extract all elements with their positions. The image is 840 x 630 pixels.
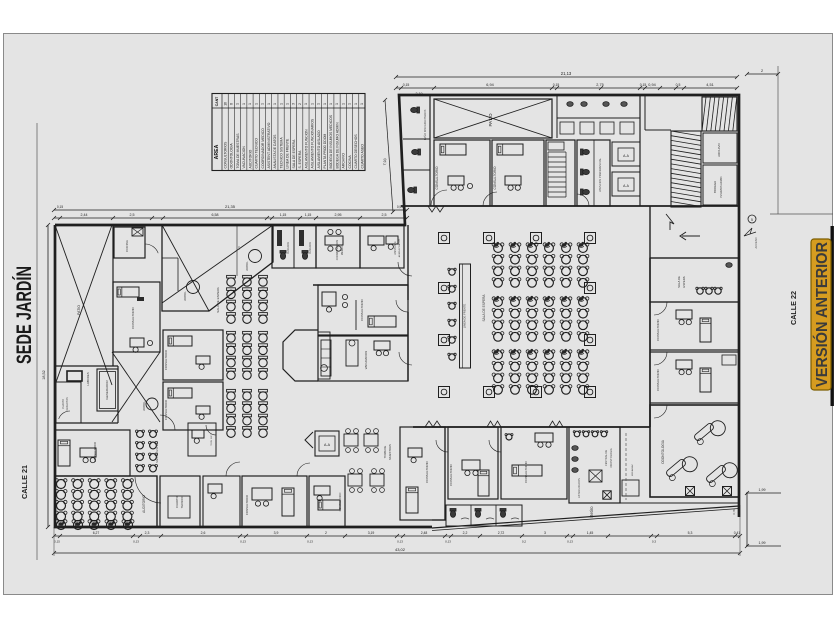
svg-text:CONSULTORIO: CONSULTORIO bbox=[656, 368, 660, 390]
svg-text:0,13: 0,13 bbox=[307, 540, 313, 544]
svg-text:AISLAMIENTO FUNCION: AISLAMIENTO FUNCION bbox=[304, 129, 308, 169]
svg-text:TECNICO SISTEMA: TECNICO SISTEMA bbox=[279, 137, 283, 169]
svg-text:TECN SIST: TECN SIST bbox=[211, 434, 213, 446]
svg-text:ESPERA: ESPERA bbox=[682, 276, 686, 287]
svg-text:SALA DE: SALA DE bbox=[677, 276, 681, 288]
hall chair group 2 bbox=[492, 296, 589, 342]
version anterior banner bbox=[811, 239, 831, 390]
svg-text:PATIO: PATIO bbox=[77, 305, 81, 315]
svg-text:ARBOL: ARBOL bbox=[245, 261, 249, 271]
svg-text:VERSIÓN ANTERIOR: VERSIÓN ANTERIOR bbox=[813, 242, 831, 387]
wing archivo room bbox=[703, 133, 737, 163]
bottom band consultorio C / central esterilizacion bbox=[501, 427, 567, 499]
svg-text:1: 1 bbox=[304, 103, 308, 105]
svg-text:CONSULTORIO: CONSULTORIO bbox=[93, 441, 97, 462]
svg-text:8: 8 bbox=[230, 103, 234, 105]
svg-text:0,13: 0,13 bbox=[397, 540, 403, 544]
esterilizacion sub room bbox=[569, 427, 639, 503]
svg-text:CUARTO TECNICO: CUARTO TECNICO bbox=[255, 138, 259, 169]
svg-text:CUARTO DESECHOS: CUARTO DESECHOS bbox=[354, 134, 358, 169]
svg-text:0,3: 0,3 bbox=[652, 540, 657, 544]
svg-text:ATENCION PREFERENCIAL: ATENCION PREFERENCIAL bbox=[598, 158, 602, 192]
svg-text:A-A: A-A bbox=[623, 154, 629, 158]
cuarto tecnico room bbox=[160, 476, 200, 527]
svg-text:TECNICO: TECNICO bbox=[180, 495, 184, 508]
svg-text:1: 1 bbox=[248, 103, 252, 105]
svg-text:0,94: 0,94 bbox=[648, 83, 655, 87]
left patio with cross bbox=[55, 225, 160, 422]
wing consultorio 2 bbox=[492, 140, 544, 206]
svg-text:LINEA DE FRENTE: LINEA DE FRENTE bbox=[286, 138, 290, 169]
bay window bbox=[283, 330, 330, 381]
svg-text:0,2: 0,2 bbox=[522, 540, 527, 544]
sala espera small chairs above auditorio bbox=[136, 430, 160, 472]
svg-text:1: 1 bbox=[360, 103, 364, 105]
svg-text:CANT: CANT bbox=[215, 96, 219, 106]
A-A section marker box bbox=[305, 431, 339, 456]
right consultorio 2 bbox=[650, 352, 739, 403]
svg-text:5: 5 bbox=[751, 218, 753, 222]
svg-text:SALA DE ESPERA: SALA DE ESPERA bbox=[482, 294, 486, 322]
svg-text:CENTRAL DE: CENTRAL DE bbox=[604, 450, 608, 467]
svg-text:3: 3 bbox=[292, 103, 296, 105]
svg-text:18: 18 bbox=[223, 102, 227, 106]
svg-text:0,13: 0,13 bbox=[133, 540, 139, 544]
svg-text:Retiro: Retiro bbox=[589, 506, 594, 518]
svg-text:2,2: 2,2 bbox=[463, 531, 468, 535]
vacunacion room bbox=[318, 336, 408, 381]
svg-text:0,15: 0,15 bbox=[403, 83, 410, 87]
black bar behind banner bbox=[831, 226, 834, 406]
svg-text:TOMA DE MUESTRAS: TOMA DE MUESTRAS bbox=[236, 133, 240, 169]
dimension lines bottom bbox=[52, 505, 742, 556]
svg-text:AISLAMIENTO FUNCIONARIOS: AISLAMIENTO FUNCIONARIOS bbox=[311, 118, 315, 168]
patio of wing with cross bbox=[434, 99, 552, 138]
svg-text:ADMINISTRATIVO: ADMINISTRATIVO bbox=[398, 238, 401, 257]
svg-text:2,3: 2,3 bbox=[145, 531, 150, 535]
slant dimension 7,93 bbox=[385, 100, 393, 212]
svg-text:AUDITORIO: AUDITORIO bbox=[248, 149, 252, 168]
svg-text:CUARTO: CUARTO bbox=[175, 495, 179, 508]
svg-text:CONSULTORIO: CONSULTORIO bbox=[164, 349, 168, 370]
svg-text:PLANTA PROD DDOM: PLANTA PROD DDOM bbox=[323, 134, 327, 169]
svg-text:1: 1 bbox=[254, 103, 258, 105]
svg-text:CUARTO ASEO: CUARTO ASEO bbox=[360, 144, 364, 169]
svg-text:1: 1 bbox=[341, 103, 345, 105]
svg-text:3,5: 3,5 bbox=[237, 246, 241, 250]
svg-text:BODEGA DE INSUMOS MEDICOS: BODEGA DE INSUMOS MEDICOS bbox=[329, 114, 333, 168]
svg-text:ARCHIVO: ARCHIVO bbox=[717, 143, 721, 157]
svg-text:CUARTO: CUARTO bbox=[62, 399, 65, 409]
svg-text:SALA DE ESPERA: SALA DE ESPERA bbox=[292, 139, 296, 169]
right sala de espera room bbox=[650, 258, 739, 302]
linea de frente counter bbox=[448, 264, 471, 368]
wing toilets top band bbox=[557, 95, 640, 206]
svg-text:1: 1 bbox=[310, 103, 314, 105]
svg-text:ANALISTA DE DATOS: ANALISTA DE DATOS bbox=[273, 134, 277, 169]
svg-text:1,99: 1,99 bbox=[759, 541, 766, 545]
svg-text:4,51: 4,51 bbox=[706, 83, 713, 87]
svg-text:1: 1 bbox=[335, 103, 339, 105]
auditorio chairs bbox=[55, 476, 161, 530]
toma de muestras tables bbox=[344, 429, 392, 493]
svg-text:1: 1 bbox=[242, 103, 246, 105]
hall chair group 3 bbox=[492, 349, 589, 395]
svg-text:FUMADOR: FUMADOR bbox=[309, 242, 312, 254]
svg-text:ACCESO: ACCESO bbox=[754, 238, 758, 249]
svg-text:1: 1 bbox=[267, 103, 271, 105]
svg-text:INSUMOS ADMIN: INSUMOS ADMIN bbox=[719, 176, 723, 197]
svg-text:COCINA: COCINA bbox=[348, 155, 352, 169]
svg-text:2,48: 2,48 bbox=[421, 531, 428, 535]
coordinacion medico room bbox=[316, 225, 360, 268]
consultorio left bottom row1 bbox=[55, 430, 130, 476]
svg-text:1: 1 bbox=[273, 103, 277, 105]
sala de espera chairs left bbox=[216, 275, 267, 437]
svg-text:2: 2 bbox=[325, 531, 327, 535]
bottom band consultorio A bbox=[400, 427, 445, 520]
svg-text:CONSULTORIO: CONSULTORIO bbox=[425, 460, 429, 482]
hall chair group 1 bbox=[492, 242, 589, 288]
building outer walls bbox=[55, 95, 739, 531]
consultorio center-right bbox=[313, 285, 408, 335]
wing vertical ramp hatch bbox=[671, 131, 701, 207]
consultorio rooms center-left column bbox=[163, 330, 223, 430]
svg-text:MEDICO: MEDICO bbox=[340, 245, 344, 255]
svg-text:0,13: 0,13 bbox=[567, 540, 573, 544]
svg-text:1,15: 1,15 bbox=[305, 213, 312, 217]
svg-text:6,94: 6,94 bbox=[486, 83, 493, 87]
svg-text:1: 1 bbox=[279, 103, 283, 105]
svg-text:43,02: 43,02 bbox=[395, 547, 406, 552]
svg-text:CALLE 22: CALLE 22 bbox=[789, 291, 798, 325]
svg-text:LINEA DE FRENTE: LINEA DE FRENTE bbox=[463, 304, 467, 329]
dimension lines right side 1,99 bbox=[745, 66, 833, 548]
consultorio left mid bbox=[113, 282, 160, 352]
svg-text:COORDINADOR MEDICO: COORDINADOR MEDICO bbox=[261, 128, 265, 169]
svg-text:21,35: 21,35 bbox=[225, 204, 236, 209]
dimension lines top wing bbox=[383, 71, 739, 214]
svg-text:ODONTOLOGIA: ODONTOLOGIA bbox=[661, 439, 665, 464]
svg-text:5,3: 5,3 bbox=[688, 531, 693, 535]
svg-text:ODONTOLOGIA: ODONTOLOGIA bbox=[230, 143, 234, 169]
retiro strip top line bbox=[569, 502, 739, 504]
svg-text:AISLAMIENTO AISLADO: AISLAMIENTO AISLADO bbox=[317, 130, 321, 169]
svg-text:A-A: A-A bbox=[324, 443, 331, 447]
svg-text:ARBOL: ARBOL bbox=[142, 401, 146, 411]
svg-text:CONSULTORIO: CONSULTORIO bbox=[524, 460, 528, 482]
svg-text:6,58: 6,58 bbox=[212, 213, 219, 217]
svg-text:0,5: 0,5 bbox=[676, 83, 681, 87]
hall walls bbox=[413, 206, 650, 427]
svg-text:2,5: 2,5 bbox=[130, 213, 135, 217]
svg-text:TOMA DE: TOMA DE bbox=[383, 446, 387, 459]
wing consultorio 1 bbox=[434, 140, 490, 206]
svg-text:CONSULTORIO: CONSULTORIO bbox=[449, 463, 453, 485]
dimension lines top of left block bbox=[52, 204, 409, 220]
svg-text:CONSULTORIO: CONSULTORIO bbox=[131, 306, 135, 328]
svg-text:ASISTENTE: ASISTENTE bbox=[394, 241, 397, 255]
svg-text:SALA DE ESPERA: SALA DE ESPERA bbox=[216, 287, 220, 313]
garden area with trees bbox=[162, 225, 273, 311]
wing A-A rooms bbox=[612, 142, 640, 196]
svg-text:1,15: 1,15 bbox=[280, 213, 287, 217]
svg-text:PATIO: PATIO bbox=[488, 113, 493, 127]
svg-text:1: 1 bbox=[317, 103, 321, 105]
svg-text:0,15: 0,15 bbox=[553, 83, 560, 87]
svg-text:0,15: 0,15 bbox=[640, 83, 647, 87]
svg-text:CONSULTORIO: CONSULTORIO bbox=[245, 494, 249, 515]
svg-text:CONSULTORIO: CONSULTORIO bbox=[360, 298, 364, 320]
svg-text:ASISTENT ADMINISTRATIVO: ASISTENT ADMINISTRATIVO bbox=[267, 122, 271, 168]
svg-text:21,13: 21,13 bbox=[561, 71, 572, 76]
svg-text:1: 1 bbox=[354, 103, 358, 105]
svg-text:ESTERILIZACION: ESTERILIZACION bbox=[578, 478, 581, 498]
bottom toilets row bbox=[446, 505, 522, 526]
fumador stalls bbox=[272, 225, 316, 268]
svg-text:BODEGA DE INSUMO ADMIN: BODEGA DE INSUMO ADMIN bbox=[335, 122, 339, 169]
consultorio mid-bottom rooms bbox=[242, 476, 345, 527]
wing stairs room bbox=[546, 140, 575, 206]
svg-text:1,99: 1,99 bbox=[759, 488, 766, 492]
svg-text:1: 1 bbox=[348, 103, 352, 105]
svg-text:GENERADOR: GENERADOR bbox=[105, 380, 109, 400]
svg-text:2,75: 2,75 bbox=[596, 83, 603, 87]
wing wc cluster bbox=[577, 140, 610, 206]
svg-text:S. ESPERA: S. ESPERA bbox=[298, 150, 302, 169]
asistente administrativo room bbox=[360, 225, 404, 268]
svg-text:SALA DE ESPERA: SALA DE ESPERA bbox=[155, 441, 159, 463]
tecnico sistemas small room bbox=[188, 423, 216, 456]
svg-text:ODONTOLOGIA: ODONTOLOGIA bbox=[609, 448, 613, 468]
svg-text:3,19: 3,19 bbox=[368, 531, 375, 535]
svg-text:DESECHOS: DESECHOS bbox=[66, 397, 69, 411]
svg-text:CONSULTORIO: CONSULTORIO bbox=[435, 166, 439, 190]
room next to cuarto tecnico bbox=[203, 476, 240, 527]
svg-text:2: 2 bbox=[761, 69, 763, 73]
svg-text:1: 1 bbox=[285, 103, 289, 105]
hall columns bbox=[439, 233, 596, 398]
legend table AREA/CANT bbox=[212, 94, 365, 171]
svg-text:AREA: AREA bbox=[214, 144, 220, 159]
svg-text:CALLE 21: CALLE 21 bbox=[20, 465, 29, 499]
svg-text:COORDINACION: COORDINACION bbox=[335, 240, 339, 261]
svg-text:VACUNACION: VACUNACION bbox=[364, 351, 368, 369]
svg-text:CONSULTORIOS: CONSULTORIOS bbox=[224, 141, 228, 169]
svg-text:0,15: 0,15 bbox=[57, 205, 63, 209]
svg-text:2: 2 bbox=[298, 103, 302, 105]
svg-text:3: 3 bbox=[544, 531, 546, 535]
retiro boundary diagonal bbox=[432, 506, 739, 528]
svg-text:LABORES: LABORES bbox=[86, 372, 90, 385]
svg-text:CONSULTORIO: CONSULTORIO bbox=[164, 399, 168, 420]
bottom band consultorio B bbox=[448, 427, 498, 499]
arbol tree bottom left patio bbox=[146, 398, 158, 410]
svg-text:0,76: 0,76 bbox=[732, 509, 736, 515]
svg-text:2,5: 2,5 bbox=[382, 213, 387, 217]
svg-text:CONSULTORIO: CONSULTORIO bbox=[493, 166, 497, 190]
cocina room bbox=[114, 227, 158, 258]
svg-text:CONSULTORIO: CONSULTORIO bbox=[656, 318, 660, 340]
svg-text:1: 1 bbox=[329, 103, 333, 105]
svg-text:0,15: 0,15 bbox=[54, 540, 60, 544]
dimension line left side 18,52 bbox=[37, 123, 50, 560]
svg-text:1: 1 bbox=[261, 103, 265, 105]
svg-text:MUESTRAS: MUESTRAS bbox=[388, 444, 392, 460]
labores / generador service block bbox=[55, 366, 158, 423]
svg-text:ARCHIVO: ARCHIVO bbox=[342, 153, 346, 169]
svg-text:FUMADOR: FUMADOR bbox=[287, 242, 290, 254]
wing stair hatch top right bbox=[702, 97, 737, 131]
svg-text:CONSULTORIO: CONSULTORIO bbox=[338, 493, 342, 512]
svg-text:MED ALMAC: MED ALMAC bbox=[631, 464, 634, 476]
svg-text:1: 1 bbox=[236, 103, 240, 105]
svg-text:1: 1 bbox=[323, 103, 327, 105]
svg-text:A-A: A-A bbox=[623, 184, 629, 188]
wing wc stalls left bbox=[403, 95, 430, 206]
right consultorio 1 bbox=[650, 302, 739, 350]
svg-text:0,41: 0,41 bbox=[734, 531, 741, 535]
svg-text:2,95: 2,95 bbox=[335, 213, 342, 217]
svg-text:1,45: 1,45 bbox=[587, 531, 594, 535]
svg-text:COCINA: COCINA bbox=[125, 240, 129, 252]
svg-text:0,13: 0,13 bbox=[240, 540, 246, 544]
svg-text:SEDE JARDÍN: SEDE JARDÍN bbox=[13, 266, 36, 364]
wing corridor walls bbox=[645, 95, 671, 130]
svg-text:3,9: 3,9 bbox=[274, 531, 279, 535]
entry vestibule and arrows bbox=[650, 206, 758, 258]
svg-text:2,44: 2,44 bbox=[81, 213, 88, 217]
svg-text:ARBOL: ARBOL bbox=[183, 291, 187, 301]
svg-text:2,72: 2,72 bbox=[498, 531, 505, 535]
svg-text:7,93: 7,93 bbox=[383, 158, 387, 165]
wing bottom wall bbox=[401, 205, 739, 207]
svg-text:2,6: 2,6 bbox=[201, 531, 206, 535]
svg-text:0,13: 0,13 bbox=[445, 540, 451, 544]
dashed overhead line bbox=[625, 433, 627, 500]
odontologia room bbox=[603, 405, 741, 499]
left block right wall bbox=[396, 225, 408, 381]
wing bodega insumos room bbox=[703, 165, 737, 205]
svg-text:6,27: 6,27 bbox=[93, 531, 100, 535]
svg-text:VACUNACION: VACUNACION bbox=[242, 146, 246, 169]
svg-text:18,52: 18,52 bbox=[42, 370, 46, 380]
door arcs bbox=[160, 190, 667, 476]
svg-text:BODEGA: BODEGA bbox=[713, 181, 717, 193]
